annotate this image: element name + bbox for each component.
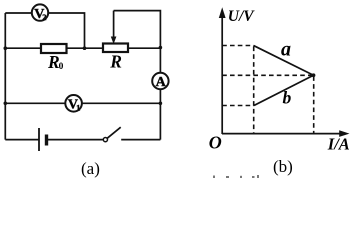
svg-text:U/V: U/V bbox=[228, 8, 256, 25]
svg-text:1: 1 bbox=[76, 103, 80, 113]
svg-text:a: a bbox=[281, 38, 291, 60]
svg-text:R: R bbox=[109, 51, 122, 71]
svg-text:0: 0 bbox=[59, 62, 64, 72]
svg-text:(a): (a) bbox=[81, 159, 100, 178]
svg-text:(b): (b) bbox=[273, 157, 293, 176]
svg-text:O: O bbox=[209, 132, 222, 152]
svg-text:I/A: I/A bbox=[327, 134, 350, 153]
svg-text:b: b bbox=[283, 87, 292, 107]
svg-text:A: A bbox=[156, 75, 167, 90]
svg-text:2: 2 bbox=[42, 12, 46, 22]
